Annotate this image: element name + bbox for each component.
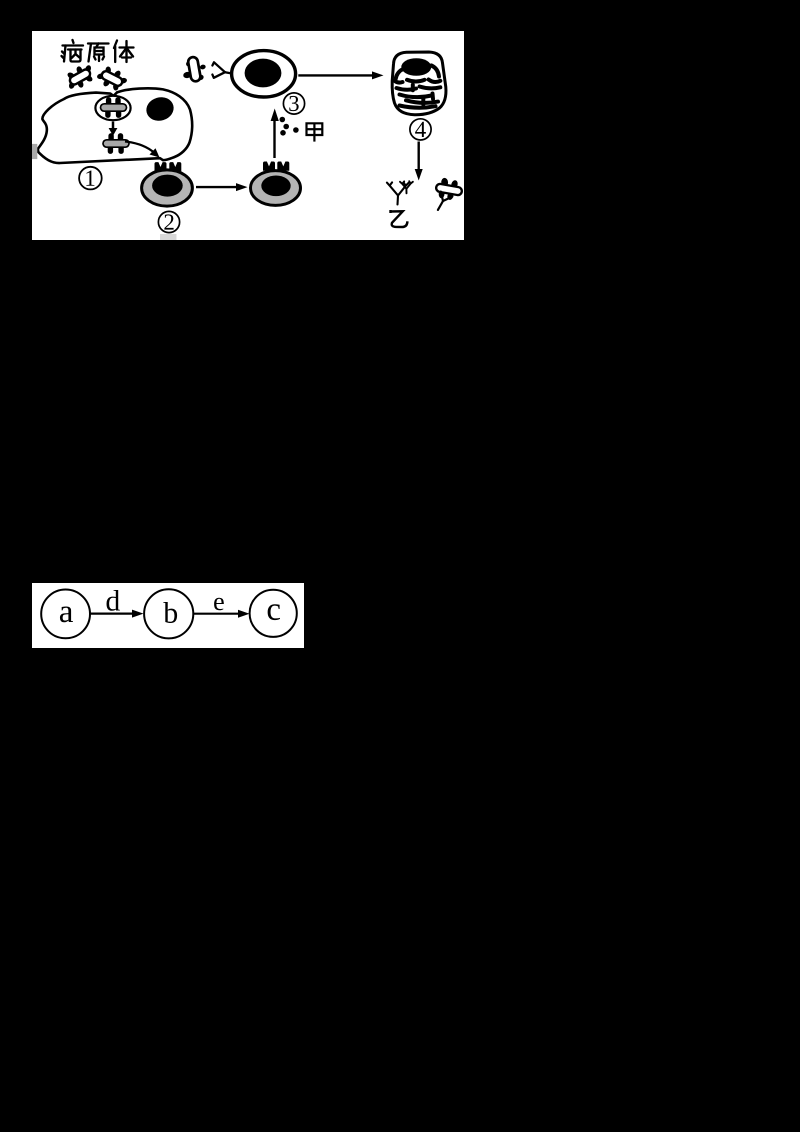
体 [114, 41, 134, 63]
membrane junction dot [35, 148, 40, 153]
antibody Y1 [387, 182, 409, 204]
label 3 [283, 93, 304, 114]
arrow d [90, 610, 144, 618]
antibody Y2 (small) [400, 181, 413, 193]
phagocyte nucleus [144, 94, 177, 124]
digested pathogen [103, 133, 129, 154]
gray artifact left edge [32, 144, 37, 159]
panel 1: immune response diagram [32, 31, 464, 240]
arrow cell3 to structure 4 [298, 71, 383, 79]
pathogen P2 (free, right) [93, 62, 131, 95]
原 [88, 44, 109, 62]
病 [62, 40, 84, 62]
phagocyte cell 1 body [37, 88, 192, 163]
gray artifact bottom [160, 234, 177, 240]
label 1 [79, 167, 102, 190]
panel 2: a-b-c chain [32, 583, 304, 648]
甲 label (hand-drawn) [307, 123, 323, 141]
pathogen P1 (free, left) [61, 60, 99, 94]
twin cell body [251, 171, 301, 206]
arrow cell2 to twin cell [196, 183, 248, 191]
cell 3 nucleus [245, 59, 282, 88]
arrow down from 4 [415, 142, 423, 181]
arrow up (cytokine) [271, 109, 279, 159]
antigen-antibody complex [434, 176, 463, 202]
ER stacks [395, 66, 441, 108]
vesicle with engulfed pathogen [95, 96, 130, 120]
twin cell receptors [263, 162, 275, 171]
curved arrow to cell 2 receptors [125, 142, 155, 154]
node a [41, 590, 90, 639]
病原体 label (hand-drawn glyphs) [62, 40, 134, 62]
arrow down inside cell [109, 122, 118, 136]
cytokine dots [280, 117, 299, 136]
cell 2 body [142, 170, 193, 206]
node b [144, 589, 193, 638]
twin cell nucleus [261, 176, 290, 197]
cell 2 nucleus [152, 175, 183, 197]
label 4 [410, 119, 431, 140]
cell 2 receptors [155, 162, 167, 171]
pathogen P3 near cell 3 [183, 56, 207, 82]
Y receptor of cell 3 [212, 62, 232, 78]
label 2 [158, 211, 179, 232]
nucleus of structure 4 [401, 58, 431, 76]
arrow e [193, 610, 249, 618]
乙 label (hand-drawn) [391, 210, 408, 227]
cell 3 body [232, 51, 296, 97]
structure 4 (plasma cell with ER) [392, 52, 446, 115]
node c [250, 590, 297, 637]
